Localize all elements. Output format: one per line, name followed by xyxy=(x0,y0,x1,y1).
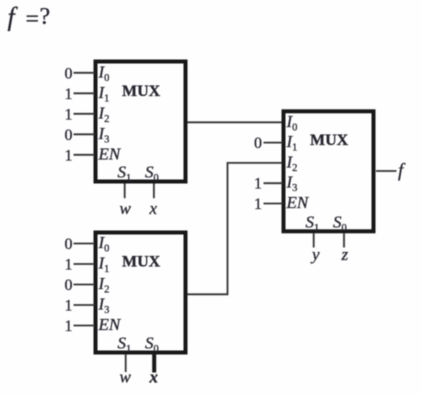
svg-text:EN: EN xyxy=(286,193,310,212)
svg-text:x: x xyxy=(149,368,159,387)
svg-text:y: y xyxy=(310,245,320,264)
svg-text:0: 0 xyxy=(65,277,73,294)
svg-text:1: 1 xyxy=(65,147,73,164)
svg-text:1: 1 xyxy=(65,257,73,274)
svg-text:=: = xyxy=(26,7,40,33)
svg-text:MUX: MUX xyxy=(122,254,161,271)
svg-text:w: w xyxy=(120,368,132,387)
svg-text:EN: EN xyxy=(98,315,122,334)
svg-text:?: ? xyxy=(40,4,51,30)
svg-text:1: 1 xyxy=(65,86,73,103)
svg-text:1: 1 xyxy=(254,176,262,193)
svg-text:MUX: MUX xyxy=(310,132,349,149)
svg-text:x: x xyxy=(149,199,158,218)
svg-text:1: 1 xyxy=(65,298,73,315)
svg-text:MUX: MUX xyxy=(122,83,161,100)
svg-text:0: 0 xyxy=(65,236,73,253)
svg-text:0: 0 xyxy=(65,65,73,82)
svg-text:1: 1 xyxy=(65,318,73,335)
svg-text:0: 0 xyxy=(254,135,262,152)
svg-text:0: 0 xyxy=(65,127,73,144)
svg-text:EN: EN xyxy=(98,144,122,163)
svg-text:z: z xyxy=(341,245,349,264)
svg-text:w: w xyxy=(120,199,132,218)
svg-text:1: 1 xyxy=(65,106,73,123)
svg-text:1: 1 xyxy=(254,196,262,213)
